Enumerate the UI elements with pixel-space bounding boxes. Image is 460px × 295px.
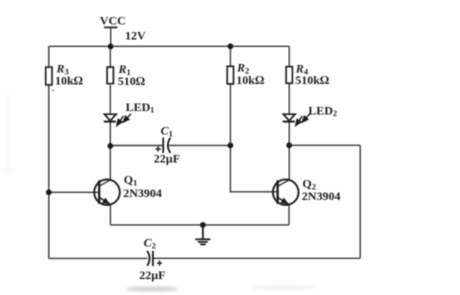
svg-text:VCC: VCC <box>100 14 126 28</box>
wire: LED1 to collector node <box>109 122 111 146</box>
wire: right rail down <box>359 145 361 258</box>
node: Q1 collector / C1 junction <box>107 143 113 149</box>
capacitor C1 <box>163 138 170 153</box>
transistor Q2 <box>273 179 299 205</box>
node: R2 top rail junction <box>228 43 234 49</box>
wire: Q2 collector vertical <box>278 145 290 186</box>
wire: C1 right segment <box>169 144 231 146</box>
node: LED2 / Q2 collector junction <box>286 142 292 148</box>
svg-text:10kΩ: 10kΩ <box>55 74 83 88</box>
wire: R2 bottom to Q2 base <box>230 84 277 192</box>
svg-text:C1: C1 <box>161 123 173 138</box>
wire: R4 to LED2 <box>288 83 290 114</box>
wire: bottom rail left of C2 <box>49 257 148 259</box>
transistor Q1 <box>94 179 120 205</box>
scan speck below R3 <box>52 89 54 91</box>
scan smudge bottom left <box>126 286 178 291</box>
scan streak left edge <box>6 95 10 175</box>
wire: Q2 emitter vertical <box>288 204 290 225</box>
svg-text:22µF: 22µF <box>154 152 180 166</box>
wire: C1 left segment <box>110 145 163 147</box>
svg-text:10kΩ: 10kΩ <box>236 73 264 87</box>
svg-text:LED2: LED2 <box>308 104 337 119</box>
wire: VCC stub <box>110 27 112 46</box>
svg-text:22µF: 22µF <box>139 268 165 282</box>
wire: Q1 base wire <box>49 191 99 193</box>
ground <box>195 225 210 245</box>
LED LED2 diode triangle <box>283 114 295 121</box>
LED2 arrow upper <box>302 114 310 123</box>
node: VCC top rail junction <box>108 44 114 50</box>
capacitor C2 <box>147 251 153 266</box>
LED2 arrow lower <box>295 116 302 126</box>
wire: R1 column top segment <box>109 46 111 67</box>
wire: bottom rail right of C2 <box>153 257 360 259</box>
wire: emitter ground rail <box>110 224 289 226</box>
C1 plus sign <box>156 146 161 151</box>
wire: LED2 to collector node <box>288 122 290 145</box>
svg-text:12V: 12V <box>125 29 146 43</box>
node: Q1 base / left rail junction <box>46 189 52 195</box>
svg-text:2N3904: 2N3904 <box>123 186 162 200</box>
wire: R4 column top segment <box>288 46 290 66</box>
wire: Q1 collector vertical <box>99 146 110 186</box>
LED LED1 diode triangle <box>104 114 116 121</box>
resistor R1 <box>107 67 113 84</box>
resistor R4 <box>286 67 292 84</box>
resistor R2 <box>227 66 233 84</box>
node: ground junction <box>200 222 206 228</box>
scan smudge bottom right <box>251 285 315 289</box>
svg-text:C2: C2 <box>144 235 156 250</box>
node: C1 / R2 junction <box>228 143 234 149</box>
svg-text:LED1: LED1 <box>126 100 155 115</box>
svg-text:510kΩ: 510kΩ <box>295 73 329 87</box>
resistor R3 <box>46 67 52 85</box>
svg-text:2N3904: 2N3904 <box>302 189 341 203</box>
svg-text:510Ω: 510Ω <box>118 74 145 88</box>
wire: left rail (R3 / Q1 base / bottom) <box>48 46 50 258</box>
C2 plus sign <box>157 261 162 266</box>
wire: R1 to LED1 <box>109 85 111 114</box>
wire: Q1 emitter vertical <box>109 204 111 225</box>
wire: R2 column top segment <box>229 46 231 66</box>
LED1 arrow lower <box>117 116 124 126</box>
wire: top VCC rail <box>49 45 289 47</box>
LED1 arrow upper <box>123 114 131 123</box>
wire: LED2 node to right rail <box>289 144 360 146</box>
power symbol VCC bar <box>104 26 117 28</box>
